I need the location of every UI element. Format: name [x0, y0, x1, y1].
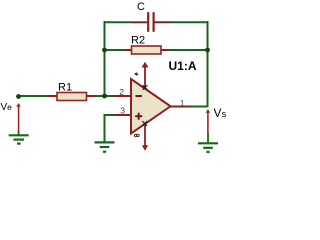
wire: right feedback vertical [207, 21, 209, 107]
capacitor C1 right lead [154, 21, 170, 23]
terminal Vs arrow [206, 109, 211, 113]
op-amp pin 4 number [135, 73, 139, 76]
op-amp power pin 8 arrowhead [142, 145, 148, 151]
wire: top feedback horizontal left segment [104, 21, 132, 23]
wire: output to Vs node [190, 106, 208, 108]
op-amp U1 pin 3 stub [113, 114, 132, 116]
pin 4 junction x-mark [143, 85, 148, 90]
wire: R1 to inverting node [96, 95, 114, 97]
resistor R1 left lead [47, 95, 58, 97]
svg-text:R1: R1 [58, 82, 72, 94]
op-amp plus sign [135, 115, 142, 117]
pin 8 junction x-mark [142, 121, 147, 126]
resistor R1 right lead [86, 95, 96, 97]
svg-text:1: 1 [180, 98, 185, 108]
svg-text:Ve: Ve [1, 102, 13, 113]
ground below pin3: bars [95, 141, 115, 143]
op-amp output pin 1 stub [171, 106, 191, 108]
junction dot inverting input node [102, 94, 107, 99]
op-amp power pin 4 arrowhead [142, 62, 149, 68]
junction dot left feedback node [102, 48, 107, 53]
wire: pin3 ground vertical [104, 114, 106, 142]
wire: R2 left green [105, 49, 124, 51]
op-amp power pin 4 stem [144, 67, 146, 88]
wire: R2 right green [170, 49, 208, 51]
resistor R2 body [132, 46, 162, 54]
ground below Vs: stem [207, 133, 209, 144]
op-amp pin 8 number [134, 134, 137, 137]
wire: left feedback vertical [104, 21, 106, 96]
terminal Ve node dot [16, 94, 21, 99]
resistor R2 left lead [123, 49, 132, 51]
wire: input node Ve to R1 [19, 95, 47, 97]
svg-text:C: C [137, 1, 145, 13]
capacitor C plates [147, 12, 149, 32]
capacitor C1 left lead [132, 21, 147, 23]
wire: top feedback horizontal right segment [171, 21, 208, 23]
ground below Ve: stem [18, 131, 20, 135]
svg-text:2: 2 [119, 87, 124, 97]
op-amp U1:A body triangle [131, 79, 171, 134]
resistor R2 right lead [161, 49, 171, 51]
op-amp minus sign [136, 95, 143, 97]
ground below Ve: bars [9, 134, 29, 136]
svg-text:3: 3 [120, 106, 125, 116]
svg-text:Vs: Vs [214, 106, 227, 120]
svg-text:U1:A: U1:A [169, 59, 197, 73]
junction dot right feedback node [205, 48, 210, 53]
resistor R1 body [57, 93, 87, 101]
op-amp power pin 8 stem [144, 124, 146, 147]
op-amp U1 pin 2 stub [113, 95, 132, 97]
svg-text:R2: R2 [131, 35, 145, 47]
terminal Ve arrow [16, 103, 21, 107]
wire: pin3 to ground horizontal [104, 114, 114, 116]
ground below Vs: bars [198, 142, 218, 144]
